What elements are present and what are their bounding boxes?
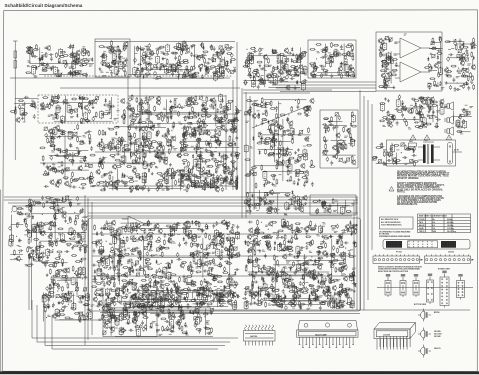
capacitor C312 bbox=[156, 187, 159, 192]
wire bbox=[51, 315, 53, 349]
label bbox=[174, 98, 178, 100]
resistor R393 bbox=[168, 148, 170, 154]
capacitor C84 bbox=[287, 52, 292, 55]
capacitor C238 bbox=[153, 150, 158, 153]
resistor R474 bbox=[213, 186, 219, 188]
resistor R18 bbox=[32, 50, 34, 56]
svg-text:PH 100: PH 100 bbox=[396, 251, 402, 253]
wire bbox=[147, 106, 149, 121]
capacitor C139 bbox=[453, 77, 456, 82]
resistor R86 bbox=[173, 46, 179, 48]
ground bbox=[230, 173, 233, 176]
capacitor C282 bbox=[233, 155, 238, 158]
svg-text:UNTERBRECHUNGEN GEGEN MASSE: UNTERBRECHUNGEN GEGEN MASSE bbox=[379, 235, 411, 238]
capacitor C134 bbox=[447, 56, 450, 61]
resistor R617 bbox=[256, 105, 262, 107]
resistor R277 bbox=[79, 98, 85, 100]
svg-text:2SC945: 2SC945 bbox=[434, 335, 441, 338]
label bbox=[183, 77, 186, 80]
ground bbox=[294, 151, 297, 154]
resistor R650 bbox=[323, 126, 329, 128]
resistor R106 bbox=[202, 42, 204, 48]
label bbox=[119, 50, 122, 53]
wire bbox=[317, 72, 352, 74]
capacitor C366 bbox=[328, 120, 333, 123]
capacitor C101 bbox=[302, 79, 307, 82]
label bbox=[436, 85, 440, 87]
label bbox=[183, 116, 186, 119]
capacitor C7 bbox=[74, 70, 77, 75]
trimmer R218 bbox=[431, 54, 435, 58]
label bbox=[178, 174, 182, 176]
capacitor C326 bbox=[293, 180, 296, 185]
transistor Q30 bbox=[263, 54, 267, 60]
capacitor C119 bbox=[428, 63, 431, 68]
ground bbox=[145, 66, 148, 69]
transistor Q19 bbox=[187, 70, 191, 76]
capacitor C240 bbox=[167, 144, 172, 147]
capacitor C177 bbox=[129, 114, 134, 117]
resistor R71 bbox=[179, 55, 181, 61]
resistor R347 bbox=[89, 137, 91, 143]
transistor Q84 bbox=[50, 179, 54, 185]
label bbox=[158, 150, 161, 152]
capacitor C91 bbox=[243, 81, 248, 84]
diode D68 bbox=[160, 144, 162, 148]
transistor Q45 bbox=[388, 71, 392, 77]
resistor R630 bbox=[282, 159, 284, 165]
capacitor C99 bbox=[302, 68, 307, 71]
label bbox=[78, 150, 81, 153]
resistor R477 bbox=[223, 170, 229, 172]
resistor R443 bbox=[144, 153, 146, 159]
resistor R258 bbox=[71, 98, 77, 100]
svg-text:TRE(V): TRE(V) bbox=[419, 231, 425, 233]
resistor R359 bbox=[89, 133, 91, 139]
label bbox=[185, 100, 189, 102]
capacitor C361 bbox=[324, 139, 327, 144]
label bbox=[181, 175, 185, 177]
resistor R607 bbox=[279, 140, 281, 146]
capacitor C90 bbox=[257, 85, 260, 90]
label bbox=[188, 96, 191, 99]
transistor Q1 bbox=[76, 54, 80, 60]
node bbox=[235, 106, 236, 107]
wire bbox=[31, 258, 33, 310]
coil L82 bbox=[270, 139, 274, 148]
label bbox=[427, 82, 430, 85]
ground bbox=[130, 190, 133, 193]
node bbox=[216, 147, 217, 148]
label bbox=[155, 78, 158, 80]
coil L9 bbox=[114, 66, 118, 75]
capacitor C57 bbox=[145, 53, 148, 58]
trimmer R93 bbox=[182, 74, 186, 78]
resistor R394 bbox=[142, 146, 148, 148]
resistor R495 bbox=[210, 142, 212, 148]
capacitor C293 bbox=[180, 169, 185, 172]
label bbox=[135, 180, 138, 183]
ground bbox=[162, 52, 165, 55]
resistor R271 bbox=[85, 120, 91, 122]
capacitor C169 bbox=[217, 119, 220, 124]
resistor R3 bbox=[82, 74, 88, 76]
label bbox=[185, 137, 188, 140]
label bbox=[285, 80, 288, 83]
transistor Q98 bbox=[208, 183, 212, 189]
wire bbox=[116, 169, 118, 191]
resistor R73 bbox=[203, 51, 209, 53]
capacitor C211 bbox=[53, 165, 56, 170]
label bbox=[264, 119, 267, 121]
wire bbox=[280, 53, 282, 76]
capacitor C138 bbox=[462, 84, 465, 89]
svg-text:2SA719: 2SA719 bbox=[434, 347, 441, 350]
resistor R265 bbox=[89, 100, 91, 106]
label bbox=[141, 49, 144, 51]
capacitor C148 bbox=[50, 99, 55, 102]
wire bbox=[72, 47, 74, 77]
resistor R413 bbox=[120, 141, 122, 147]
resistor R13 bbox=[60, 51, 66, 53]
coil L49 bbox=[56, 105, 60, 114]
capacitor C71 bbox=[154, 71, 157, 76]
label bbox=[135, 52, 138, 55]
label bbox=[344, 63, 347, 66]
node bbox=[163, 177, 164, 178]
capacitor C309 bbox=[113, 181, 116, 186]
resistor R56 bbox=[225, 48, 231, 50]
resistor R24 bbox=[32, 52, 34, 58]
diode D83 bbox=[208, 142, 210, 146]
resistor R339 bbox=[136, 97, 138, 103]
label bbox=[120, 156, 123, 158]
wire bbox=[28, 255, 30, 310]
resistor R9 bbox=[63, 55, 69, 57]
capacitor C74 bbox=[171, 72, 174, 77]
trimmer R129 bbox=[273, 50, 277, 54]
capacitor C142 bbox=[34, 104, 37, 109]
wire bbox=[127, 126, 166, 128]
capacitor C135 bbox=[465, 49, 468, 54]
transistor Q125 bbox=[224, 176, 228, 182]
capacitor C15 bbox=[79, 64, 84, 67]
diode D111 bbox=[350, 136, 352, 140]
diode D38 bbox=[466, 81, 468, 85]
label bbox=[138, 137, 141, 140]
capacitor C222 bbox=[69, 143, 72, 148]
svg-text:ALL RESISTOR 1/4 W: ALL RESISTOR 1/4 W bbox=[381, 218, 399, 221]
wire bbox=[194, 44, 196, 69]
diode D21 bbox=[296, 80, 298, 84]
wire bbox=[44, 310, 46, 346]
label bbox=[51, 150, 54, 152]
wire bbox=[317, 74, 352, 76]
resistor R58 bbox=[160, 63, 162, 69]
resistor R456 bbox=[198, 137, 200, 143]
capacitor C166 bbox=[147, 99, 152, 102]
transistor Q139 bbox=[333, 145, 337, 151]
capacitor C113 bbox=[329, 55, 334, 58]
label bbox=[258, 76, 261, 79]
node bbox=[311, 165, 312, 166]
label bbox=[42, 68, 45, 71]
svg-text:HA1196: HA1196 bbox=[250, 335, 258, 338]
label bbox=[187, 98, 190, 100]
label bbox=[304, 74, 307, 77]
node bbox=[210, 179, 211, 180]
coil L61 bbox=[116, 143, 120, 152]
capacitor C14 bbox=[69, 71, 72, 76]
transistor Q104 bbox=[177, 152, 181, 158]
resistor R513 bbox=[183, 154, 189, 156]
coil L33 bbox=[248, 52, 252, 61]
resistor R337 bbox=[203, 108, 209, 110]
resistor R131 bbox=[300, 82, 306, 84]
capacitor C173 bbox=[145, 96, 148, 101]
transistor Q32 bbox=[282, 64, 286, 70]
resistor R560 bbox=[258, 132, 260, 138]
label bbox=[69, 67, 73, 69]
wire bbox=[331, 139, 346, 141]
label bbox=[83, 118, 86, 120]
label bbox=[174, 172, 178, 174]
wire bbox=[243, 89, 332, 91]
resistor R614 bbox=[298, 172, 304, 174]
node bbox=[207, 125, 208, 126]
wire bbox=[39, 47, 41, 67]
board outline bbox=[310, 195, 356, 215]
resistor R585 bbox=[297, 155, 303, 157]
resistor R178 bbox=[338, 70, 340, 76]
coil L62 bbox=[147, 131, 151, 140]
wire bbox=[200, 150, 202, 182]
resistor R497 bbox=[183, 174, 189, 176]
diode D39 bbox=[473, 56, 475, 60]
resistor R291 bbox=[186, 105, 192, 107]
wire bbox=[92, 233, 356, 235]
svg-text:Schaltbild/Circuit Diagram/Sch: Schaltbild/Circuit Diagram/Schema bbox=[5, 3, 83, 8]
diode D40 bbox=[15, 106, 17, 110]
diode D63 bbox=[115, 131, 117, 135]
ground bbox=[264, 138, 267, 141]
trimmer R384 bbox=[65, 167, 69, 171]
diode D106 bbox=[258, 113, 260, 117]
label bbox=[167, 71, 170, 74]
resistor R529 bbox=[186, 186, 188, 192]
wire bbox=[448, 57, 464, 59]
resistor R623 bbox=[272, 120, 278, 122]
transistor Q11 bbox=[122, 60, 126, 66]
label bbox=[207, 116, 210, 119]
capacitor C300 bbox=[158, 185, 161, 190]
coil L77 bbox=[142, 172, 146, 181]
resistor R39 bbox=[101, 55, 107, 57]
capacitor C276 bbox=[190, 133, 193, 138]
coil L38 bbox=[334, 49, 338, 58]
label bbox=[453, 40, 457, 42]
resistor R562 bbox=[270, 100, 272, 106]
diode D70 bbox=[104, 131, 106, 135]
capacitor C277 bbox=[214, 128, 217, 133]
resistor R402 bbox=[146, 125, 148, 131]
label bbox=[198, 176, 201, 179]
capacitor C92 bbox=[256, 68, 259, 73]
wire bbox=[282, 119, 284, 181]
label bbox=[384, 38, 387, 40]
transistor Q31 bbox=[286, 85, 290, 91]
diode D62 bbox=[59, 149, 61, 153]
resistor R357 bbox=[50, 145, 56, 147]
resistor R507 bbox=[216, 161, 218, 167]
capacitor C333 bbox=[295, 160, 300, 163]
resistor R399 bbox=[128, 132, 130, 138]
transistor Q91 bbox=[133, 151, 137, 157]
coil L26 bbox=[177, 42, 181, 51]
label bbox=[460, 85, 464, 87]
transistor Q60 bbox=[49, 101, 53, 107]
label bbox=[283, 130, 287, 132]
diode D27 bbox=[283, 65, 285, 69]
wire bbox=[88, 212, 358, 214]
label bbox=[382, 63, 385, 65]
resistor R294 bbox=[167, 117, 169, 123]
ground bbox=[169, 163, 172, 166]
label bbox=[88, 59, 92, 61]
capacitor C217 bbox=[46, 165, 49, 170]
resistor R134 bbox=[264, 79, 266, 85]
label bbox=[161, 63, 164, 65]
resistor R174 bbox=[350, 64, 352, 70]
transistor Q24 bbox=[205, 68, 209, 74]
transistor Q28 bbox=[267, 73, 271, 79]
capacitor C252 bbox=[135, 126, 138, 131]
resistor R310 bbox=[210, 104, 216, 106]
ground bbox=[181, 176, 184, 179]
label bbox=[234, 185, 237, 188]
capacitor C296 bbox=[183, 128, 186, 133]
coil L43 bbox=[387, 55, 391, 64]
wire bbox=[268, 81, 376, 83]
resistor R137 bbox=[296, 61, 302, 63]
resistor R68 bbox=[204, 58, 206, 64]
resistor R79 bbox=[176, 65, 182, 67]
resistor R252 bbox=[30, 105, 36, 107]
capacitor C299 bbox=[139, 187, 144, 190]
resistor R304 bbox=[193, 103, 199, 105]
wire bbox=[60, 87, 240, 89]
trimmer R204 bbox=[388, 37, 392, 41]
label bbox=[183, 44, 186, 47]
capacitor C345 bbox=[286, 118, 289, 123]
label bbox=[273, 83, 277, 85]
ground bbox=[248, 113, 251, 116]
node bbox=[232, 100, 233, 101]
trimmer R154 bbox=[272, 49, 276, 53]
wire bbox=[170, 140, 172, 151]
capacitor C247 bbox=[165, 134, 168, 139]
wire bbox=[124, 145, 126, 166]
resistor R544 bbox=[191, 185, 197, 187]
resistor R358 bbox=[77, 124, 79, 130]
ground bbox=[103, 187, 106, 190]
label bbox=[145, 45, 148, 48]
wire bbox=[130, 133, 132, 159]
resistor R190 bbox=[331, 42, 333, 48]
ground bbox=[297, 148, 300, 151]
label bbox=[166, 113, 170, 115]
wire bbox=[447, 40, 464, 42]
resistor R481 bbox=[211, 158, 217, 160]
wire bbox=[269, 86, 301, 88]
resistor R19 bbox=[83, 60, 89, 62]
resistor R259 bbox=[81, 118, 83, 124]
trimmer R275 bbox=[89, 100, 93, 104]
resistor R602 bbox=[308, 127, 310, 133]
resistor R338 bbox=[221, 121, 223, 127]
diode D56 bbox=[89, 175, 91, 179]
resistor R396 bbox=[118, 137, 120, 143]
resistor R431 bbox=[141, 136, 147, 138]
label bbox=[124, 185, 128, 187]
resistor R254 bbox=[56, 114, 58, 120]
coil L67 bbox=[122, 155, 126, 164]
diode D51 bbox=[197, 113, 199, 117]
resistor R540 bbox=[192, 175, 198, 177]
coil L87 bbox=[288, 163, 292, 172]
label bbox=[428, 69, 431, 71]
transistor Q7 bbox=[75, 59, 79, 65]
diode D8 bbox=[177, 75, 179, 79]
capacitor C141 bbox=[24, 96, 29, 99]
wire bbox=[24, 102, 26, 122]
wire bbox=[105, 46, 117, 48]
trimmer R424 bbox=[111, 145, 115, 149]
resistor R472 bbox=[235, 180, 237, 186]
resistor R401 bbox=[134, 132, 136, 138]
capacitor C286 bbox=[205, 148, 208, 153]
transistor Q70 bbox=[157, 113, 161, 119]
resistor R115 bbox=[273, 66, 275, 72]
resistor R484 bbox=[182, 160, 188, 162]
trimmer R264 bbox=[74, 108, 78, 112]
label bbox=[208, 58, 211, 60]
label bbox=[50, 129, 53, 132]
resistor R165 bbox=[341, 73, 343, 79]
transistor Q141 bbox=[352, 159, 356, 165]
ground bbox=[297, 178, 300, 181]
ground bbox=[264, 101, 267, 104]
label bbox=[232, 185, 235, 188]
resistor R237 bbox=[470, 72, 472, 78]
resistor R46 bbox=[117, 45, 119, 51]
resistor R148 bbox=[264, 65, 270, 67]
resistor R164 bbox=[315, 65, 317, 71]
transistor Q135 bbox=[274, 121, 278, 127]
resistor R597 bbox=[267, 154, 273, 156]
transistor Q55 bbox=[471, 64, 475, 70]
capacitor C330 bbox=[269, 129, 272, 134]
resistor R207 bbox=[380, 70, 386, 72]
capacitor C317 bbox=[108, 171, 113, 174]
coil L76 bbox=[184, 166, 188, 175]
label bbox=[130, 178, 133, 180]
wire bbox=[215, 100, 217, 126]
transistor Q118 bbox=[129, 185, 133, 191]
capacitor C274 bbox=[199, 154, 202, 159]
trimmer R468 bbox=[215, 137, 219, 141]
diode D99 bbox=[124, 174, 126, 178]
